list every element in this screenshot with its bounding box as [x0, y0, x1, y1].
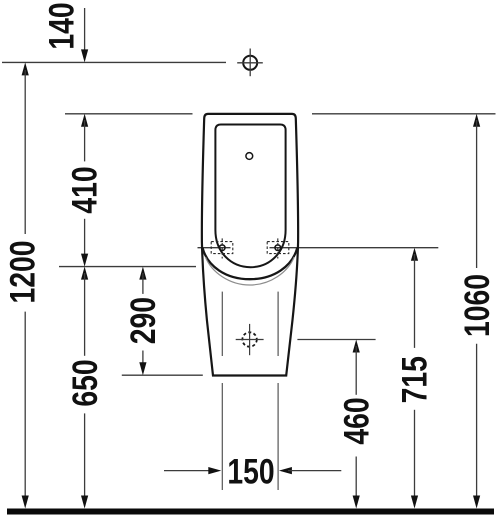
- dimension 460 line lower: [355, 457, 357, 503]
- dimension 410 line lower: [84, 219, 86, 260]
- outlet reference line (460 level): [297, 339, 375, 341]
- svg-text:650: 650: [65, 359, 105, 406]
- dimension 150 right shaft: [288, 470, 341, 472]
- urinal top reference line right segment: [312, 113, 496, 115]
- bowl front lip curve: [203, 248, 298, 279]
- dimension 460 bottom arrow: [353, 496, 360, 509]
- svg-text:410: 410: [65, 166, 105, 213]
- floor line: [7, 509, 494, 515]
- svg-text:290: 290: [123, 297, 163, 344]
- outlet cross horizontal: [236, 339, 264, 341]
- 150 extension line left upper: [221, 292, 223, 356]
- fixing hole left circle: [219, 245, 225, 251]
- dimension 140 shaft above arrow: [84, 8, 86, 50]
- svg-text:150: 150: [227, 452, 274, 492]
- dimension 715 bottom arrow: [411, 496, 418, 509]
- fixing hole right circle: [275, 245, 281, 251]
- dimension 715 line upper: [414, 254, 416, 348]
- fixing hole left dashed square: [211, 242, 233, 254]
- dimension 410 top arrow: [81, 114, 88, 127]
- rinse hole: [246, 153, 253, 160]
- dimension 715 line lower: [414, 410, 416, 502]
- dimension 650 bottom arrow: [81, 496, 88, 509]
- dimension 410 line upper: [84, 120, 86, 161]
- rim bottom reference line (650 level): [59, 266, 196, 268]
- fixing hole left vertical dashed tick: [221, 238, 223, 258]
- water inlet cross horizontal tick: [237, 62, 263, 64]
- urinal inner rim opening: [215, 125, 285, 268]
- outlet dashed circle: [242, 332, 256, 346]
- dimension 150 left shaft: [164, 470, 212, 472]
- dimension 290 bottom arrow: [139, 362, 146, 375]
- 150 extension line right upper: [277, 292, 279, 356]
- 150 extension line left lower: [221, 383, 223, 490]
- dimension 1060 top arrow: [473, 114, 480, 127]
- water inlet crosshair circle: [243, 56, 257, 70]
- urinal outer body outline: [202, 114, 298, 376]
- dimension 290 top arrow: [139, 267, 146, 280]
- svg-text:715: 715: [395, 356, 435, 403]
- 150 extension line right lower: [277, 383, 279, 490]
- dimension 1200 bottom arrow: [22, 496, 29, 509]
- svg-text:460: 460: [336, 397, 376, 444]
- dimension 1060 bottom arrow: [473, 496, 480, 509]
- urinal top reference line left segment: [65, 113, 193, 115]
- svg-text:1200: 1200: [3, 240, 43, 303]
- svg-text:1060: 1060: [457, 274, 497, 337]
- dimension 1200 line upper: [24, 70, 26, 234]
- dimension 140 down arrow: [81, 49, 88, 62]
- fixing holes reference line left tick: [198, 247, 231, 249]
- dimension 650 line lower: [84, 413, 86, 502]
- bowl lip shadow curve: [205, 257, 294, 285]
- dimension 715 top arrow: [411, 248, 418, 261]
- urinal bottom reference line (290 level): [122, 374, 203, 376]
- dimension 290 line lower: [142, 351, 144, 370]
- fixing hole right vertical dashed tick: [277, 238, 279, 258]
- dimension 460 line upper: [355, 346, 357, 395]
- dimension 650 line upper: [84, 273, 86, 356]
- fixing hole right dashed square: [267, 242, 289, 254]
- fixing holes reference line right segment (715 level): [270, 247, 439, 249]
- water inlet cross vertical tick: [249, 49, 251, 77]
- dimension 290 line upper: [142, 273, 144, 294]
- svg-text:140: 140: [41, 2, 81, 49]
- dimension 460 top arrow: [353, 340, 360, 353]
- dimension 410 bottom arrow: [81, 254, 88, 267]
- dimension 1200 top arrow: [22, 62, 29, 75]
- dimension 1060 line upper: [476, 120, 478, 268]
- dimension 150 right arrow: [279, 467, 292, 474]
- dimension 650 top arrow: [81, 267, 88, 280]
- dimension 1200 line lower: [24, 312, 26, 502]
- outlet cross vertical: [249, 324, 251, 355]
- dimension 150 left arrow: [208, 467, 221, 474]
- water inlet reference line (140 level): [2, 61, 226, 63]
- dimension 1060 line lower: [476, 344, 478, 502]
